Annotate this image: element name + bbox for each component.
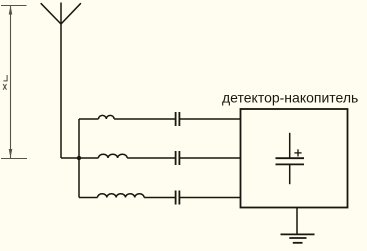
inductor L1: [99, 115, 115, 119]
wire branch1 left: [79, 118, 99, 120]
dimension extension tick top: [1, 5, 27, 7]
wire branch3 right: [179, 197, 240, 199]
inductor L2: [98, 154, 127, 158]
storage capacitor top lead: [289, 133, 291, 158]
wire antenna to bus: [61, 157, 79, 159]
dimension extension tick bottom: [1, 158, 27, 160]
capacitor C1: [176, 112, 180, 126]
junction dot: [77, 156, 81, 160]
ground lead: [296, 208, 298, 235]
dimension label L (rotated): [3, 75, 7, 81]
wire branch3 left: [79, 197, 98, 199]
capacitor C2: [176, 151, 180, 165]
box detector-accumulator U1: [241, 109, 348, 208]
dimension arrow up: [9, 6, 13, 15]
bus vertical wire: [78, 119, 80, 198]
ground: [281, 234, 315, 242]
wire branch2 right: [179, 157, 240, 159]
capacitor C3: [176, 191, 180, 205]
dimension label x (rotated): [3, 84, 6, 90]
wire branch3 mid: [144, 197, 176, 199]
storage capacitor plates: [276, 158, 305, 164]
wire branch1 right: [179, 118, 240, 120]
plus sign: [294, 149, 301, 156]
wire branch2 left: [79, 157, 98, 159]
antenna W1: [41, 3, 81, 159]
inductor L3: [98, 194, 145, 198]
dimension line: [10, 6, 12, 159]
dimension arrow down: [9, 149, 13, 158]
storage capacitor bottom lead: [289, 164, 291, 184]
wire branch2 mid: [127, 157, 175, 159]
wire branch1 mid: [114, 118, 176, 120]
svg-text:детектор-накопитель: детектор-накопитель: [222, 89, 358, 105]
